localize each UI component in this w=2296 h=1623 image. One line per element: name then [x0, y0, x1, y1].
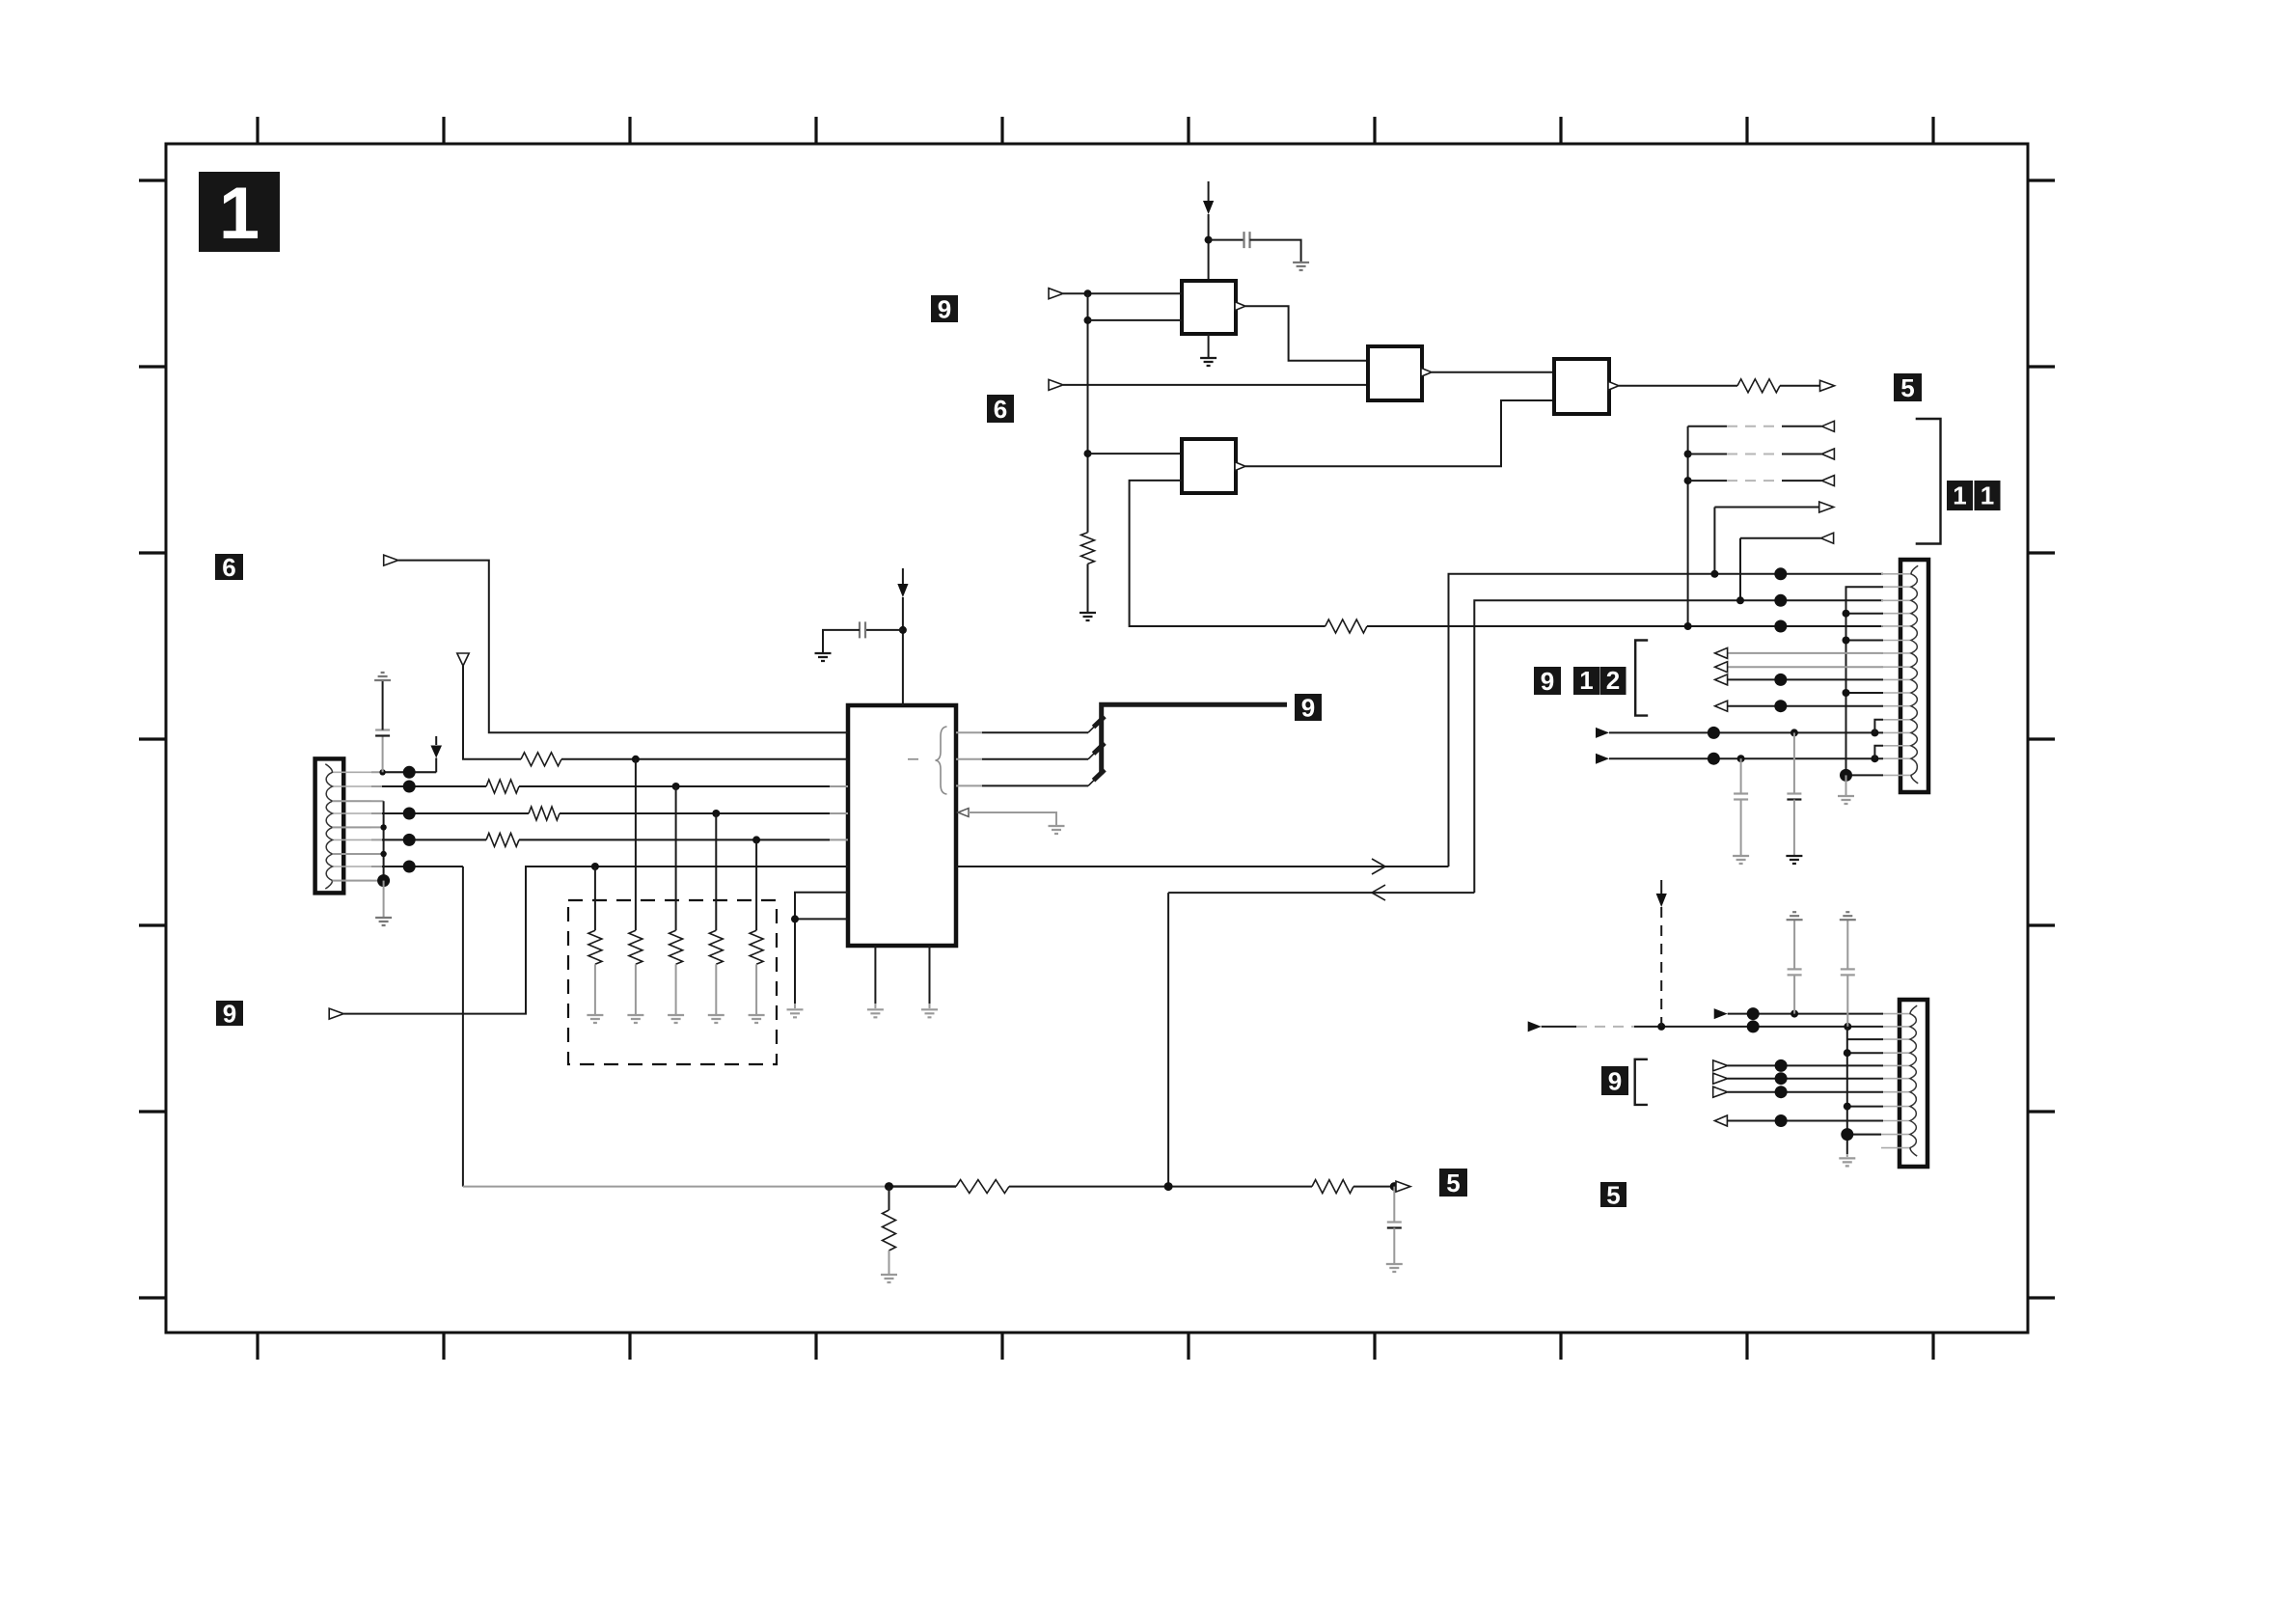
ground Rnet3	[668, 1015, 684, 1023]
wire 9-input to U5 pin6	[343, 867, 848, 1014]
bus V5 (CN2 gnd)	[1846, 1027, 1848, 1154]
border frame	[166, 144, 2028, 1333]
direction mark return	[1372, 885, 1385, 900]
dashed signal row 2	[1688, 449, 1835, 459]
input arrow 9	[329, 1008, 343, 1019]
resistor Rnet4	[709, 813, 723, 1014]
junction V1 row3	[1684, 477, 1692, 484]
tag 9 (top)	[931, 294, 958, 323]
dash mark inside U5	[908, 758, 918, 760]
IC U4	[1182, 439, 1236, 493]
U1 output arrow	[1235, 302, 1245, 311]
svg-text:5: 5	[1606, 1180, 1620, 1209]
power symbol P1 (top)	[1203, 181, 1214, 214]
resistor R10	[1312, 1180, 1353, 1194]
svg-text:1: 1	[1953, 481, 1966, 510]
dashed signal row 1	[1688, 421, 1835, 431]
output arrow A3	[1820, 380, 1835, 391]
resistor Rnet1	[588, 867, 602, 1014]
ground bus (CNL pins 3/5/7/9)	[333, 801, 384, 880]
wire row D (to CN1 pins 12/13)	[1596, 727, 1883, 739]
wire row4 to row A	[1713, 508, 1715, 574]
junction VT1/U1 pin2	[1084, 316, 1092, 324]
capacitor C7 (above pin1)	[1788, 920, 1802, 1013]
junction row A / row4 branch	[1710, 570, 1718, 578]
junction row C / bus V1	[1684, 622, 1692, 630]
tag 5 (CN2)	[1600, 1180, 1626, 1209]
ground G6 (C3)	[1733, 856, 1749, 864]
wire R2 to output arrow	[1780, 385, 1821, 387]
wire CN2 pin6 row	[1713, 1072, 1883, 1085]
node pin1 big dot	[403, 766, 416, 779]
node row C big dot	[1774, 620, 1787, 633]
dashed signal row 3	[1688, 476, 1835, 486]
wire row B (net to CN1 pin3)	[1474, 600, 1883, 893]
direction mark out5	[1372, 859, 1385, 874]
bottom row wire	[463, 1186, 1397, 1188]
wire pin8 drop to bottom row	[462, 867, 464, 1187]
wire U4 out to U3 pin2	[1245, 400, 1554, 466]
svg-text:9: 9	[1608, 1066, 1622, 1095]
wire CNL pin8 row	[371, 866, 463, 867]
wire U5 pins7/8 tie	[795, 893, 848, 1004]
wire jog row D to pin12	[1874, 720, 1883, 733]
junction Rnet4 top	[712, 810, 720, 817]
junction VT1/U4 pin1	[1084, 450, 1092, 457]
power symbol P2 (U5)	[897, 568, 908, 597]
resistor R5	[529, 807, 560, 820]
input arrow 6	[384, 555, 398, 565]
bracket for tags 5/11	[1916, 419, 1941, 544]
frame tick marks	[139, 117, 2055, 1360]
junction V4 pin10	[1843, 689, 1850, 697]
bus V1 (dashed rows)	[1687, 426, 1689, 626]
wire U5 out2	[956, 746, 1102, 759]
resistor R4	[486, 780, 519, 793]
node junction J1	[1205, 236, 1213, 244]
resistor R9	[956, 1180, 1009, 1194]
junction V4 pin4	[1843, 610, 1850, 618]
ground G12	[867, 1009, 884, 1017]
resistor R3 (row C)	[1326, 619, 1367, 633]
wire C1 to ground	[1250, 240, 1301, 261]
wire return line to row B	[1168, 892, 1474, 894]
svg-text:1: 1	[219, 173, 260, 255]
dashed wire P4 to pin2 row	[1660, 907, 1662, 1027]
wire bus to ground	[383, 881, 385, 917]
wire CN2 pin1 row	[1714, 1007, 1883, 1020]
ground Rnet5	[749, 1015, 765, 1023]
wire J1 to capacitor C1	[1209, 239, 1244, 241]
resistor R6	[486, 833, 519, 846]
node pin4 big dot	[403, 808, 416, 820]
tag 6 (left)	[215, 553, 243, 582]
thick bus to tag 9	[1102, 704, 1287, 774]
U4 output arrow	[1235, 462, 1245, 471]
capacitor C4	[860, 621, 865, 638]
wire CN1 pin16 (gnd)	[1840, 769, 1883, 795]
wire CN1 pin2 elbow to bus V4	[1846, 587, 1884, 775]
wire CNL pin6 row to U5 pin5	[371, 839, 848, 840]
vertical bus VT1	[1087, 293, 1089, 533]
wire U5 out5 to row A	[956, 866, 1449, 867]
wire CN1 pin8 with arrow	[1715, 662, 1883, 673]
wire CN1 pin6	[1846, 640, 1884, 642]
wire CN1 pin4	[1846, 613, 1884, 615]
power symbol P3	[430, 736, 442, 772]
resistor R7	[521, 753, 561, 766]
svg-text:9: 9	[938, 294, 951, 323]
connector CN2	[1881, 1000, 1927, 1167]
wire CN2 pin5 row	[1713, 1059, 1883, 1072]
ground G10 (CNL bus)	[375, 918, 392, 925]
wire CN2 pin7 row	[1713, 1086, 1883, 1098]
connector CN-L (left)	[315, 758, 371, 893]
resistor R2	[1737, 379, 1780, 393]
ground G15 (C6)	[1386, 1264, 1403, 1272]
nabla input symbol	[457, 653, 469, 666]
wire CN1 pin7 with arrow	[1715, 647, 1883, 658]
bracket for tags 9/12	[1635, 641, 1648, 716]
junction bottom row / shunt R	[885, 1182, 893, 1191]
junction pin1/cap	[379, 769, 385, 775]
power symbol P4 (dashed feed)	[1656, 880, 1667, 907]
wire VT1 to U4 pin1	[1088, 453, 1183, 454]
wire R1 to ground	[1087, 564, 1089, 612]
junction Rnet3 top	[672, 783, 680, 790]
wire CNL pin2 row to U5 pin3	[371, 785, 848, 787]
wire 6-input to U5 pin1	[398, 561, 848, 733]
bracket for tag 9 (CN2)	[1635, 1059, 1648, 1105]
tag 12	[1573, 666, 1626, 695]
ground Rnet1	[587, 1015, 603, 1023]
tag 9 (mid right)	[1534, 667, 1561, 696]
node bus pin9 big dot	[377, 874, 390, 887]
ground G17 (above C8)	[1840, 912, 1856, 920]
capacitor C1	[1244, 232, 1250, 248]
wire P1 to node	[1208, 214, 1210, 281]
ground G18 (CN2 bus)	[1839, 1154, 1855, 1166]
wire U3 out to R2	[1619, 385, 1737, 387]
resistor Rnet5	[750, 839, 763, 1014]
resistor Rnet2	[629, 759, 642, 1014]
ground G9 (above C5)	[374, 673, 391, 680]
node pin8 big dot	[403, 861, 416, 873]
wire CN2 pin8 row	[1844, 1103, 1883, 1111]
svg-text:9: 9	[1541, 667, 1554, 696]
svg-text:6: 6	[222, 553, 235, 582]
ground Rnet2	[627, 1015, 643, 1023]
ground Rnet4	[708, 1015, 724, 1023]
node pin2 big dot	[403, 781, 416, 793]
wire jog row E to pin14	[1874, 746, 1883, 758]
sheet number tag 1	[199, 172, 280, 255]
wire U5 bottom pin a to ground	[874, 946, 876, 1008]
junction row B / row5 branch	[1736, 596, 1744, 604]
wire U5 out1	[956, 720, 1102, 733]
capacitor C2 (row D)	[1787, 732, 1801, 855]
svg-text:1: 1	[1579, 666, 1593, 695]
ground G7 (C4)	[815, 653, 832, 661]
junction Rnet2 top	[632, 756, 640, 763]
junction bus pin5	[380, 824, 386, 830]
tag 11	[1947, 481, 2001, 510]
ground G5 (C2)	[1786, 856, 1802, 864]
wire U2 out to U3	[1432, 371, 1554, 373]
wire U1 bottom to ground	[1208, 334, 1210, 357]
wire row E (to CN1 pins 14/15)	[1596, 753, 1883, 765]
svg-text:6: 6	[994, 395, 1007, 424]
dashed box (termination network)	[568, 900, 777, 1064]
wire A2 to U2 pin2	[1063, 384, 1368, 386]
tag 6 (top)	[987, 395, 1014, 424]
resistor R8 (shunt)	[883, 1187, 896, 1274]
resistor Rnet3	[670, 786, 683, 1014]
wire CNL pin1 row	[371, 771, 436, 773]
ground G4 (CN1 pin16)	[1838, 796, 1854, 804]
junction bottom row / shunt C	[1390, 1182, 1399, 1191]
bus merge strokes	[1094, 717, 1106, 781]
ground G13	[921, 1009, 938, 1017]
wire CN2 pin9 row	[1714, 1114, 1883, 1127]
wire U1 out to U2	[1245, 306, 1368, 361]
tag 9 (CN2)	[1601, 1066, 1628, 1095]
signal row 5 (in)	[1740, 533, 1834, 543]
ground G14 (R8)	[881, 1275, 897, 1282]
ground G2 (U1)	[1200, 358, 1216, 366]
wire A1 to U1 pin1	[1063, 292, 1182, 294]
svg-text:9: 9	[1301, 693, 1315, 722]
node pin6 big dot	[403, 834, 416, 846]
U5 pin ctl arrow	[958, 809, 1056, 825]
capacitor C5 (pin1)	[375, 681, 390, 772]
node row B big dot	[1774, 594, 1787, 607]
U3 output arrow	[1608, 381, 1619, 390]
junction pins7/8	[791, 915, 799, 922]
connector CN1	[1881, 560, 1928, 792]
junction Rnet5 top	[752, 836, 760, 843]
svg-text:1: 1	[1981, 481, 1994, 510]
ground G11 (U5 pin7/8)	[787, 1004, 804, 1017]
junction J2 (U5 top node)	[899, 626, 907, 634]
junction bottom row / return drop	[1164, 1182, 1173, 1191]
wire CN2 pin10 row	[1841, 1128, 1881, 1141]
input arrow A2	[1049, 379, 1063, 390]
wire CN2 pin4 row	[1844, 1049, 1883, 1057]
wire row5 to row B	[1739, 538, 1741, 601]
wire CN1 pin10	[1846, 692, 1884, 694]
ground G3 (R1)	[1080, 613, 1096, 620]
wire U5 out3	[956, 773, 1102, 786]
wire CN2 pin3 row	[1847, 1038, 1883, 1040]
tag 5 (top right)	[1894, 373, 1922, 402]
wire CN1 pin9 with arrow	[1715, 674, 1883, 686]
wire CN1 pin11 with arrow	[1715, 700, 1883, 712]
input arrow A1	[1049, 289, 1063, 299]
wire CNL pin4 row to U5 pin4	[371, 812, 848, 814]
junction V4 pin6	[1843, 637, 1850, 645]
svg-text:5: 5	[1900, 373, 1914, 402]
wire C4 to ground	[823, 630, 860, 652]
wire return drop to bottom row	[1167, 893, 1169, 1187]
IC U3	[1554, 359, 1609, 414]
wire P2 to U5 top	[902, 597, 904, 705]
svg-text:5: 5	[1446, 1169, 1460, 1197]
junction Rnet1 top	[591, 863, 599, 870]
resistor R1 (pull-down)	[1081, 533, 1095, 564]
ground G1	[1293, 262, 1309, 270]
capacitor C3 (row E)	[1734, 758, 1748, 855]
svg-text:9: 9	[223, 999, 236, 1028]
node row A big dot	[1774, 567, 1787, 580]
wire row A (net to CN1 pin1)	[1449, 574, 1884, 867]
ground G8 (ctl)	[1049, 826, 1065, 834]
junction bus pin7	[380, 851, 386, 857]
capacitor C8 (above pin2)	[1841, 920, 1855, 1027]
U2 output arrow	[1421, 368, 1432, 376]
wire row C (U4 to CN1 pin5)	[1130, 481, 1883, 626]
wire J2 to capacitor C4	[866, 629, 903, 631]
output arrow bottom row	[1396, 1181, 1410, 1192]
IC U2	[1368, 346, 1422, 400]
tag 9 (bus dest)	[1295, 693, 1322, 722]
junction V1 row2	[1684, 451, 1692, 458]
wire CN2 pin2 row	[1528, 1020, 1883, 1032]
ground G16 (above C7)	[1787, 912, 1803, 920]
capacitor C6 (shunt)	[1387, 1187, 1402, 1263]
wire nabla to U5 pin2	[463, 666, 848, 759]
IC U5 (main)	[848, 705, 956, 946]
brace inside U5	[936, 727, 947, 794]
IC U1	[1182, 281, 1236, 334]
junction node on A1 wire	[1084, 289, 1092, 297]
tag 9 (left)	[216, 999, 243, 1028]
wire VT1 to U1 pin2	[1088, 319, 1183, 321]
svg-text:2: 2	[1606, 666, 1620, 695]
signal row 4 (out)	[1714, 502, 1833, 512]
tag 5 (bottom)	[1439, 1169, 1467, 1197]
wire U5 bottom pin b to ground	[929, 946, 931, 1008]
